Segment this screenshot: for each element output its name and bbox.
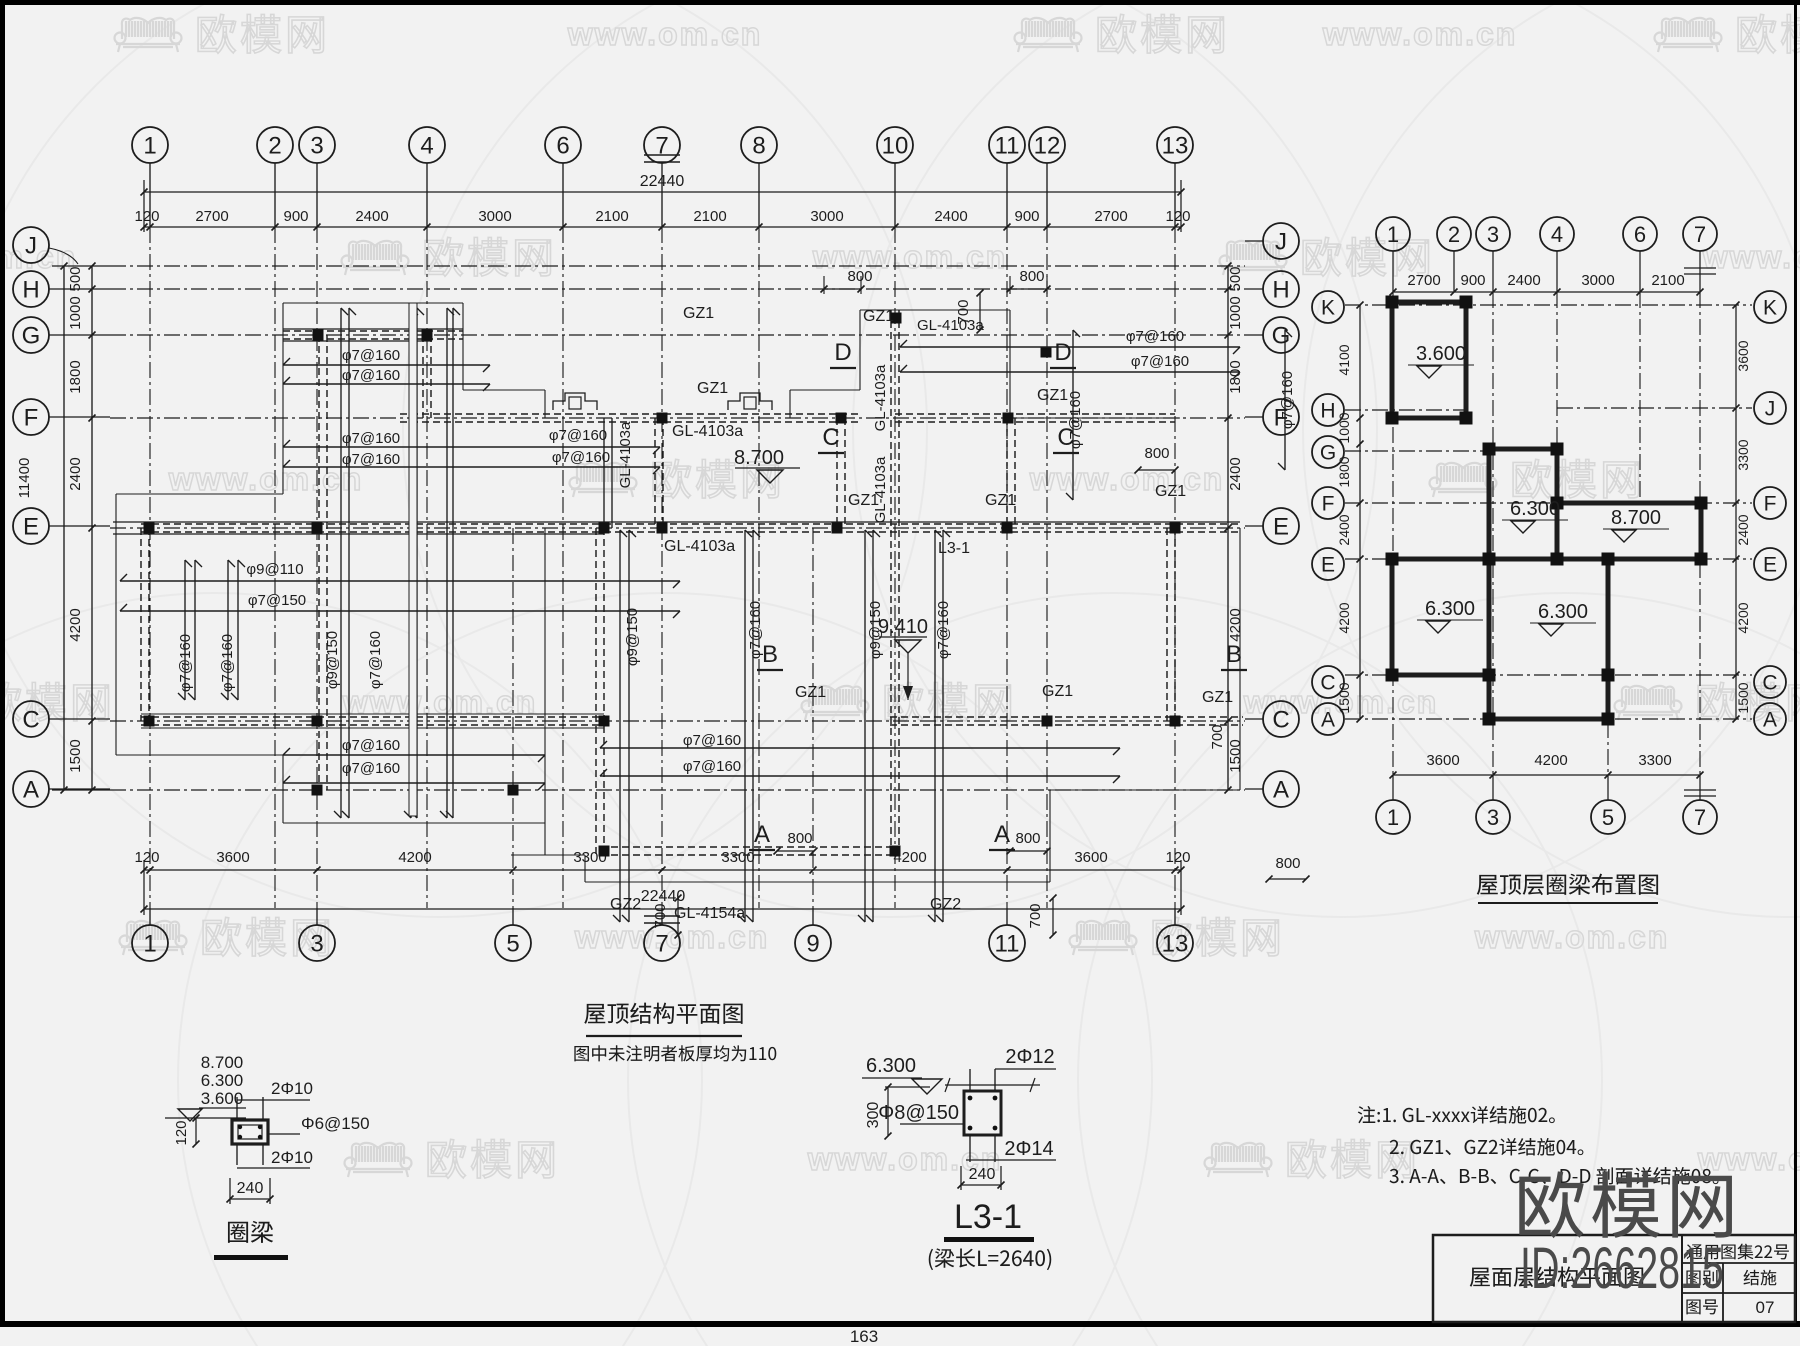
svg-text:1500: 1500 <box>67 739 84 772</box>
svg-text:φ7@160: φ7@160 <box>1131 353 1189 370</box>
svg-text:GL-4103a: GL-4103a <box>617 421 634 488</box>
svg-text:E: E <box>1321 554 1335 577</box>
svg-text:3600: 3600 <box>216 849 249 866</box>
svg-text:800: 800 <box>1275 855 1300 872</box>
svg-text:800: 800 <box>847 268 872 285</box>
svg-text:2700: 2700 <box>195 208 228 225</box>
svg-text:300: 300 <box>865 1102 882 1129</box>
svg-text:6.300: 6.300 <box>1510 498 1560 520</box>
svg-text:4200: 4200 <box>67 608 84 641</box>
svg-text:φ7@160: φ7@160 <box>342 347 400 364</box>
svg-text:1: 1 <box>1387 805 1399 830</box>
svg-text:3000: 3000 <box>810 208 843 225</box>
svg-text:4200: 4200 <box>1735 602 1751 633</box>
svg-text:3300: 3300 <box>1735 439 1751 470</box>
svg-text:F: F <box>1764 493 1777 516</box>
svg-text:K: K <box>1321 297 1335 320</box>
svg-text:H: H <box>1320 400 1335 423</box>
svg-text:φ7@160: φ7@160 <box>342 760 400 777</box>
svg-text:φ7@160: φ7@160 <box>549 427 607 444</box>
svg-text:3600: 3600 <box>1735 340 1751 371</box>
svg-text:500: 500 <box>1227 266 1244 291</box>
svg-text:13: 13 <box>1162 133 1189 160</box>
svg-text:800: 800 <box>1015 830 1040 847</box>
svg-text:F: F <box>1322 493 1335 516</box>
svg-text:E: E <box>23 514 39 541</box>
svg-text:240: 240 <box>237 1180 264 1197</box>
svg-text:4100: 4100 <box>1336 344 1352 375</box>
svg-text:500: 500 <box>67 266 84 291</box>
svg-text:11: 11 <box>995 931 1020 958</box>
svg-text:163: 163 <box>850 1327 878 1346</box>
svg-text:J: J <box>25 233 37 260</box>
svg-text:8.700: 8.700 <box>1611 507 1661 529</box>
svg-text:120: 120 <box>1165 849 1190 866</box>
svg-text:www.om.cn: www.om.cn <box>0 239 77 275</box>
svg-text:3: 3 <box>310 931 323 958</box>
svg-text:φ9@150: φ9@150 <box>624 608 641 666</box>
svg-text:www.om.cn: www.om.cn <box>574 919 770 955</box>
svg-text:GZ2: GZ2 <box>610 896 641 913</box>
svg-text:1: 1 <box>143 931 156 958</box>
svg-text:A: A <box>1763 709 1777 732</box>
svg-text:www.om.cn: www.om.cn <box>1702 239 1800 275</box>
svg-text:11: 11 <box>995 133 1020 160</box>
svg-text:GL-4103a: GL-4103a <box>672 423 743 440</box>
svg-text:2Φ12: 2Φ12 <box>1005 1046 1054 1068</box>
svg-text:700: 700 <box>1209 724 1226 749</box>
svg-text:1000: 1000 <box>1227 296 1244 329</box>
svg-text:6.300: 6.300 <box>866 1055 916 1077</box>
svg-text:A: A <box>994 821 1010 848</box>
svg-text:C: C <box>1057 424 1074 451</box>
svg-text:2100: 2100 <box>595 208 628 225</box>
svg-text:11400: 11400 <box>16 458 33 499</box>
svg-text:φ7@160: φ7@160 <box>935 601 952 659</box>
svg-text:13: 13 <box>1162 931 1189 958</box>
svg-text:3300: 3300 <box>1638 752 1671 769</box>
svg-text:7: 7 <box>1694 805 1706 830</box>
svg-text:9.410: 9.410 <box>878 616 928 638</box>
svg-text:GZ1: GZ1 <box>1202 689 1233 706</box>
svg-text:900: 900 <box>1460 272 1485 289</box>
svg-text:800: 800 <box>1144 445 1169 462</box>
svg-text:900: 900 <box>283 208 308 225</box>
svg-text:www.om.cn: www.om.cn <box>567 16 763 52</box>
svg-text:2400: 2400 <box>934 208 967 225</box>
svg-text:G: G <box>22 323 41 350</box>
svg-text:φ7@160: φ7@160 <box>683 758 741 775</box>
svg-text:1800: 1800 <box>67 360 84 393</box>
svg-text:5: 5 <box>1602 805 1614 830</box>
svg-text:www.om.cn: www.om.cn <box>1474 919 1670 955</box>
svg-text:800: 800 <box>787 830 812 847</box>
svg-text:φ7@160: φ7@160 <box>367 631 384 689</box>
svg-text:3: 3 <box>1487 222 1499 247</box>
svg-text:4: 4 <box>420 133 433 160</box>
svg-text:J: J <box>1765 398 1776 421</box>
svg-text:8.700: 8.700 <box>201 1053 244 1072</box>
svg-text:4200: 4200 <box>1227 608 1244 641</box>
svg-text:4200: 4200 <box>1534 752 1567 769</box>
svg-text:φ9@110: φ9@110 <box>246 561 303 578</box>
svg-text:E: E <box>1273 514 1289 541</box>
svg-text:120: 120 <box>1165 208 1190 225</box>
svg-text:10: 10 <box>882 133 909 160</box>
svg-text:2400: 2400 <box>1507 272 1540 289</box>
svg-text:φ7@160: φ7@160 <box>683 732 741 749</box>
svg-text:GZ1: GZ1 <box>863 308 894 325</box>
svg-text:GZ1: GZ1 <box>683 305 714 322</box>
svg-text:φ9@150: φ9@150 <box>324 631 341 689</box>
svg-text:2400: 2400 <box>1336 514 1352 545</box>
svg-text:φ7@160: φ7@160 <box>342 451 400 468</box>
svg-text:φ7@160: φ7@160 <box>342 737 400 754</box>
svg-text:120: 120 <box>173 1120 190 1145</box>
svg-text:www.om.cn: www.om.cn <box>1029 461 1225 497</box>
svg-text:D: D <box>834 339 851 366</box>
svg-text:6: 6 <box>1634 222 1646 247</box>
svg-text:D: D <box>1054 339 1071 366</box>
svg-text:1500: 1500 <box>1735 682 1751 713</box>
svg-text:1500: 1500 <box>1227 739 1244 772</box>
svg-text:Φ8@150: Φ8@150 <box>878 1102 959 1124</box>
svg-text:2Φ10: 2Φ10 <box>271 1148 313 1167</box>
svg-text:6.300: 6.300 <box>201 1071 244 1090</box>
svg-text:A: A <box>23 777 39 804</box>
svg-text:Φ6@150: Φ6@150 <box>301 1114 370 1133</box>
svg-text:GZ1: GZ1 <box>1155 483 1186 500</box>
svg-text:5: 5 <box>506 931 519 958</box>
svg-text:φ7@150: φ7@150 <box>248 592 306 609</box>
svg-text:2Φ14: 2Φ14 <box>1004 1138 1053 1160</box>
svg-text:1000: 1000 <box>1336 412 1352 443</box>
svg-text:C: C <box>1762 672 1777 695</box>
svg-text:GL-4154a: GL-4154a <box>674 905 745 922</box>
svg-text:9: 9 <box>806 931 819 958</box>
svg-text:L3-1: L3-1 <box>938 540 970 557</box>
svg-text:GZ1: GZ1 <box>697 380 728 397</box>
svg-text:07: 07 <box>1756 1298 1775 1317</box>
svg-text:www.om.cn: www.om.cn <box>812 239 1008 275</box>
svg-text:B: B <box>762 641 778 668</box>
svg-text:ID:2662815: ID:2662815 <box>1520 1235 1724 1300</box>
svg-text:GZ1: GZ1 <box>1042 683 1073 700</box>
svg-text:G: G <box>1320 442 1336 465</box>
svg-text:2: 2 <box>268 133 281 160</box>
svg-text:GL-4103a: GL-4103a <box>872 456 889 523</box>
svg-text:φ7@160: φ7@160 <box>219 634 236 692</box>
svg-text:A: A <box>1273 777 1289 804</box>
svg-text:GZ1: GZ1 <box>795 684 826 701</box>
svg-text:2100: 2100 <box>693 208 726 225</box>
svg-text:H: H <box>22 277 39 304</box>
svg-text:K: K <box>1763 297 1777 320</box>
svg-text:22440: 22440 <box>640 173 685 190</box>
svg-text:1500: 1500 <box>1336 682 1352 713</box>
svg-text:L3-1: L3-1 <box>954 1198 1022 1236</box>
svg-text:6: 6 <box>556 133 569 160</box>
svg-text:2400: 2400 <box>1227 457 1244 490</box>
svg-text:B: B <box>1226 641 1242 668</box>
svg-text:8: 8 <box>752 133 765 160</box>
svg-text:4200: 4200 <box>398 849 431 866</box>
svg-text:2400: 2400 <box>355 208 388 225</box>
svg-text:GL-4103a: GL-4103a <box>664 538 735 555</box>
svg-text:1000: 1000 <box>67 296 84 329</box>
svg-text:4200: 4200 <box>1336 602 1352 633</box>
svg-text:1: 1 <box>143 133 156 160</box>
svg-text:φ7@160: φ7@160 <box>342 430 400 447</box>
svg-text:12: 12 <box>1034 133 1061 160</box>
svg-text:2: 2 <box>1448 222 1460 247</box>
svg-text:G: G <box>1272 323 1291 350</box>
svg-text:C: C <box>22 707 39 734</box>
svg-text:6.300: 6.300 <box>1425 598 1475 620</box>
svg-text:1800: 1800 <box>1336 456 1352 487</box>
svg-text:GZ1: GZ1 <box>1037 387 1068 404</box>
svg-text:2700: 2700 <box>1094 208 1127 225</box>
svg-text:GZ1: GZ1 <box>985 492 1016 509</box>
svg-text:φ7@160: φ7@160 <box>552 449 610 466</box>
svg-text:C: C <box>1272 707 1289 734</box>
svg-text:6.300: 6.300 <box>1538 601 1588 623</box>
svg-text:1: 1 <box>1387 222 1399 247</box>
svg-text:GL-4103a: GL-4103a <box>872 364 889 431</box>
svg-text:J: J <box>1275 229 1287 256</box>
svg-text:GZ2: GZ2 <box>930 896 961 913</box>
svg-text:E: E <box>1763 554 1777 577</box>
svg-text:A: A <box>754 821 770 848</box>
svg-text:www.om.cn: www.om.cn <box>1697 1141 1800 1177</box>
svg-text:A: A <box>1321 709 1335 732</box>
svg-text:F: F <box>24 405 39 432</box>
svg-text:2Φ10: 2Φ10 <box>271 1079 313 1098</box>
svg-text:700: 700 <box>1027 903 1044 928</box>
svg-text:700: 700 <box>652 903 669 928</box>
svg-text:φ7@160: φ7@160 <box>1279 371 1296 429</box>
svg-text:7: 7 <box>655 931 668 958</box>
svg-text:3600: 3600 <box>1074 849 1107 866</box>
svg-text:C: C <box>1320 672 1335 695</box>
svg-text:120: 120 <box>134 208 159 225</box>
svg-text:3300: 3300 <box>721 849 754 866</box>
svg-text:4: 4 <box>1551 222 1563 247</box>
svg-text:3000: 3000 <box>1581 272 1614 289</box>
svg-text:7: 7 <box>1694 222 1706 247</box>
svg-text:GL-4103a: GL-4103a <box>917 317 984 334</box>
svg-text:φ7@160: φ7@160 <box>342 367 400 384</box>
svg-text:240: 240 <box>969 1166 996 1183</box>
svg-text:2100: 2100 <box>1651 272 1684 289</box>
svg-text:φ7@160: φ7@160 <box>177 634 194 692</box>
svg-text:3: 3 <box>310 133 323 160</box>
svg-text:2400: 2400 <box>67 457 84 490</box>
svg-text:3000: 3000 <box>478 208 511 225</box>
svg-text:120: 120 <box>134 849 159 866</box>
svg-text:www.om.cn: www.om.cn <box>1322 16 1518 52</box>
svg-text:3600: 3600 <box>1426 752 1459 769</box>
svg-text:3: 3 <box>1487 805 1499 830</box>
svg-text:φ7@160: φ7@160 <box>1126 328 1184 345</box>
svg-text:H: H <box>1272 277 1289 304</box>
svg-text:900: 900 <box>1014 208 1039 225</box>
svg-text:C: C <box>822 424 839 451</box>
svg-text:8.700: 8.700 <box>734 447 784 469</box>
svg-text:3.600: 3.600 <box>1416 343 1466 365</box>
svg-text:800: 800 <box>1019 268 1044 285</box>
svg-text:2700: 2700 <box>1407 272 1440 289</box>
svg-text:2400: 2400 <box>1735 514 1751 545</box>
